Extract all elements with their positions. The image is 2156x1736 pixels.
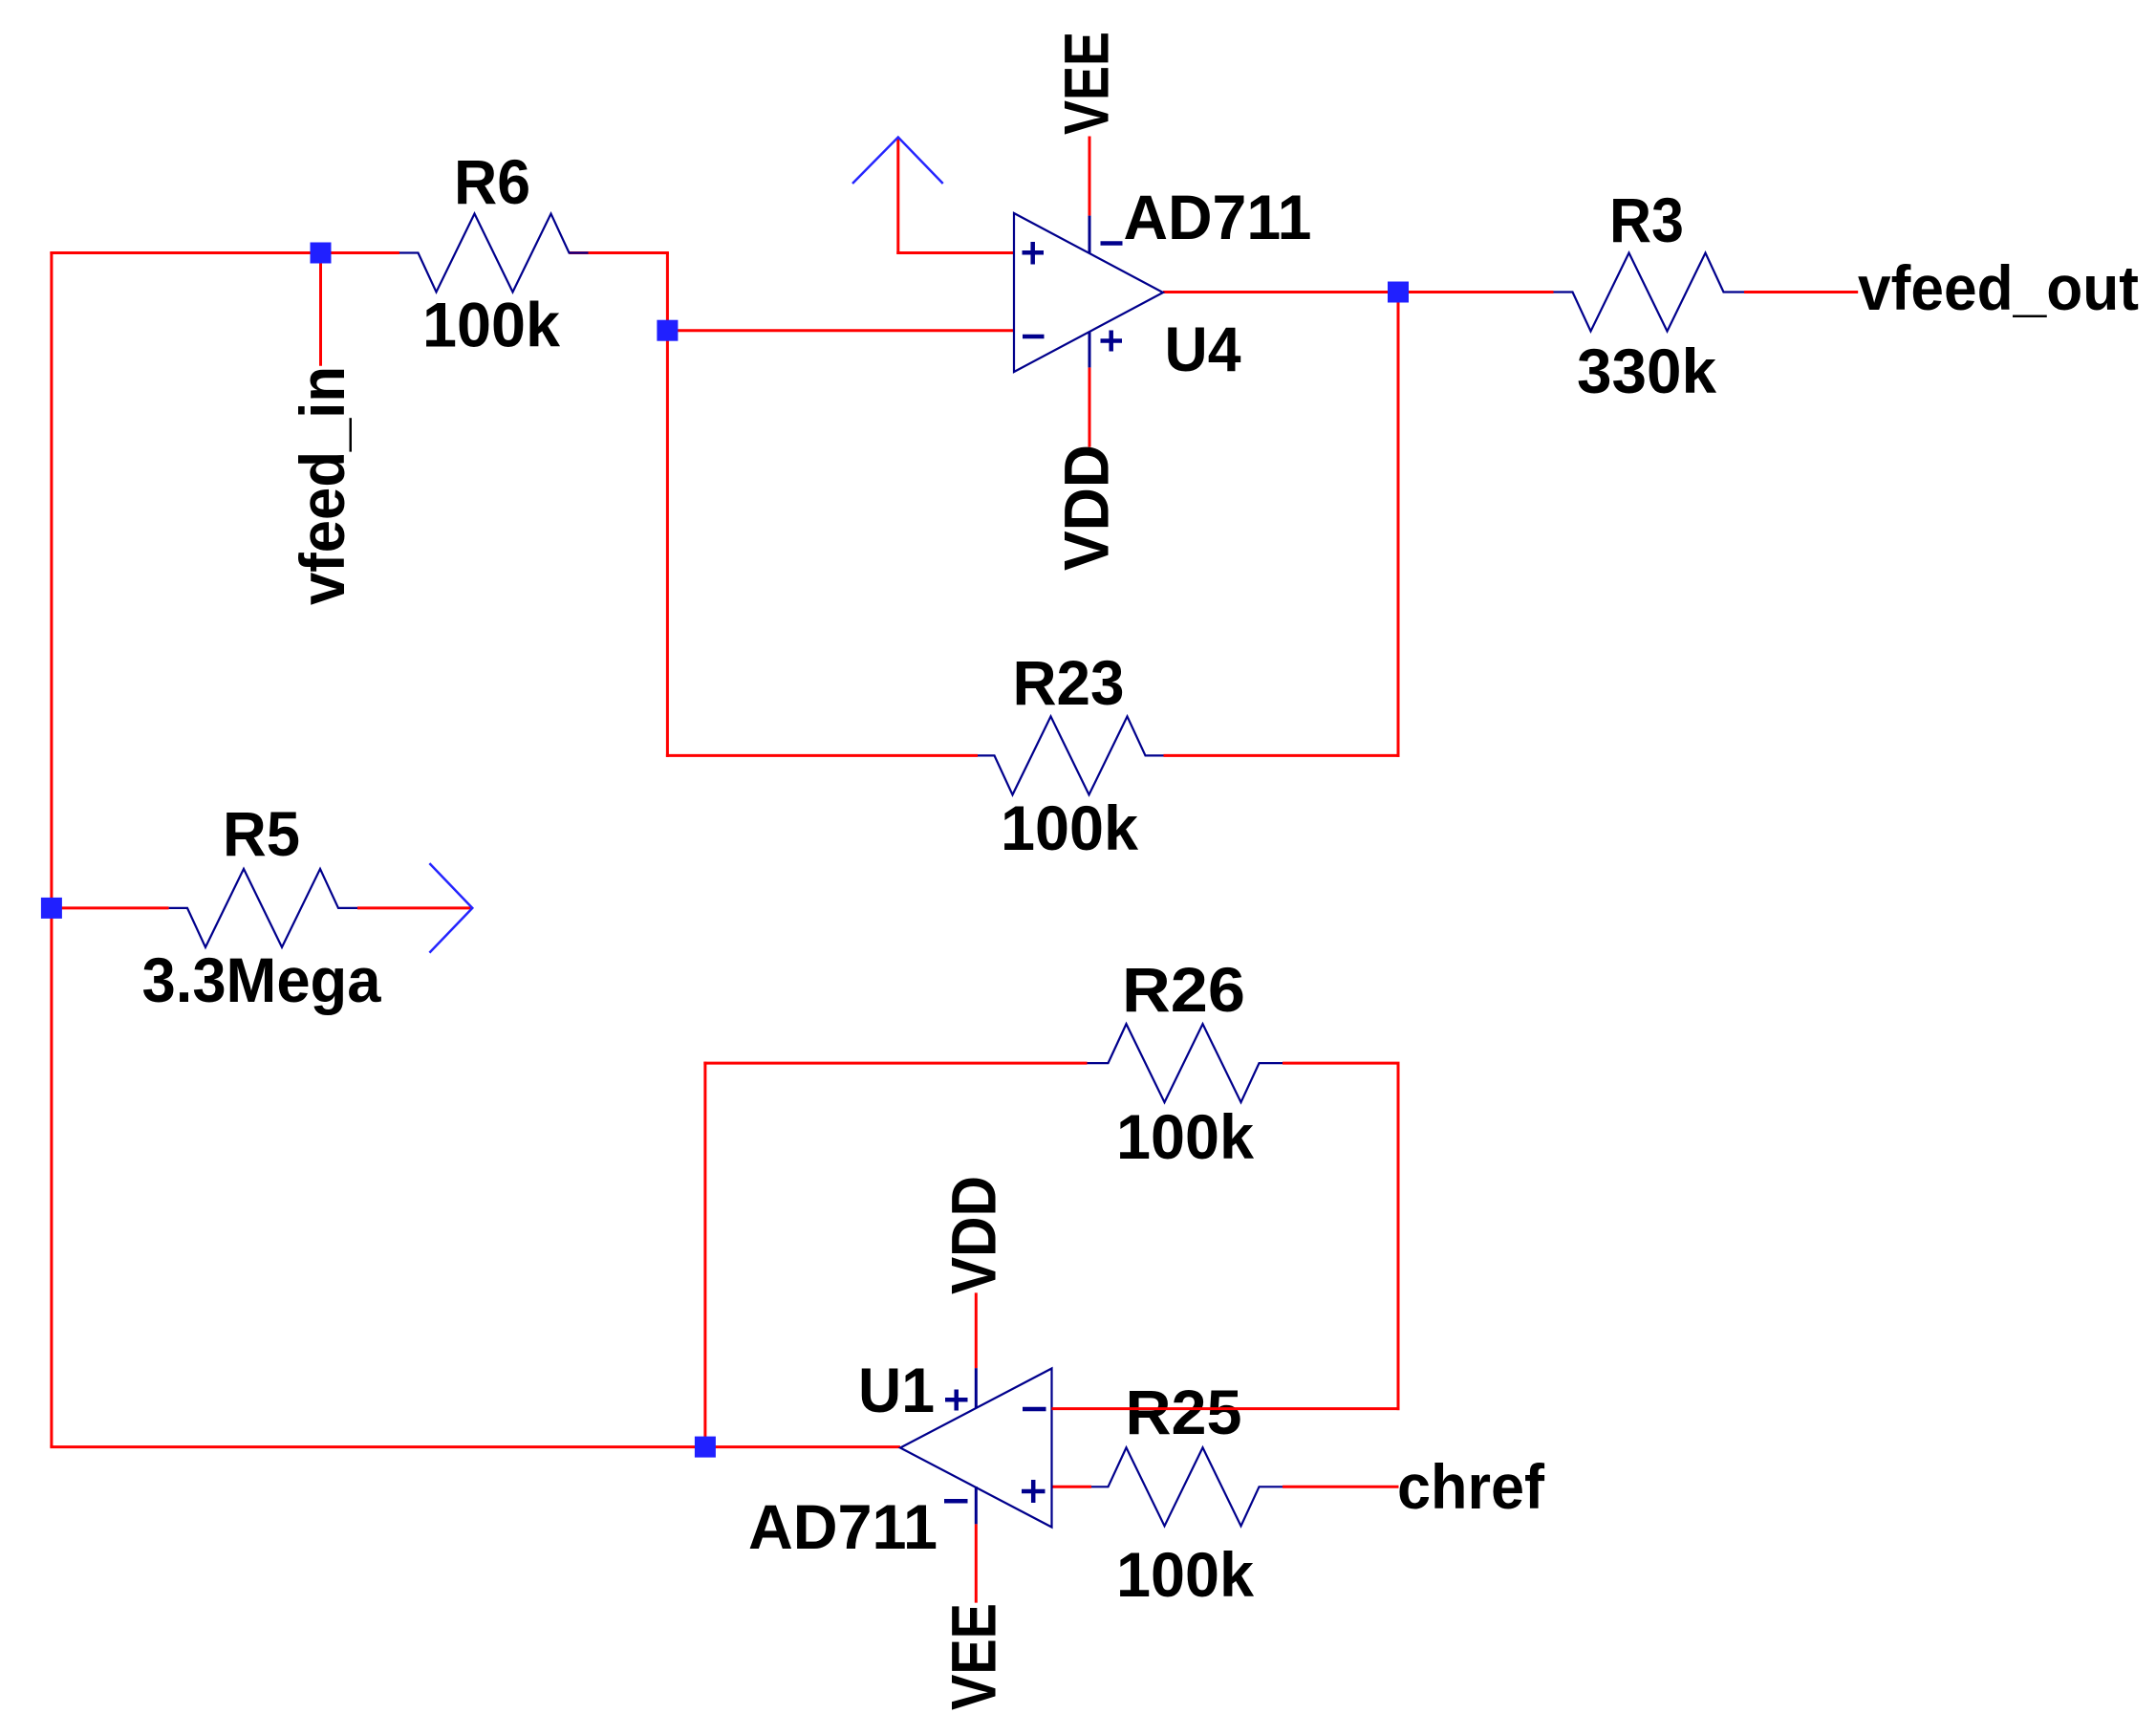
open-net arrow near U4 input: [852, 138, 943, 184]
op-amp U1: [900, 1368, 1052, 1527]
resistor R5: [169, 869, 357, 947]
wire feedback vertical down: [1397, 1063, 1400, 1410]
resistor R6: [399, 214, 589, 293]
svg-text:100k: 100k: [1116, 1539, 1254, 1610]
svg-text:100k: 100k: [422, 290, 560, 360]
svg-text:VEE: VEE: [1051, 32, 1122, 135]
op-amp U1 noninverting input plus: [1022, 1489, 1046, 1494]
junction node at vfeed_in: [311, 243, 332, 264]
wire R5 left: [52, 906, 169, 909]
op-amp U4 top power pin: [1089, 216, 1091, 253]
wire arrow stub down: [896, 138, 899, 255]
svg-text:100k: 100k: [1001, 792, 1138, 863]
op-amp U4 bottom power pin: [1089, 332, 1091, 367]
wire R3 to vfeed_out: [1744, 291, 1858, 293]
svg-text:AD711: AD711: [1124, 182, 1312, 252]
svg-text:VDD: VDD: [1051, 445, 1122, 571]
svg-text:R6: R6: [454, 146, 530, 217]
op-amp U4: [1014, 213, 1163, 372]
op-amp U1 bottom power pin: [975, 1486, 978, 1524]
svg-text:3.3Mega: 3.3Mega: [142, 944, 382, 1015]
wire U1 noninverting input to R25: [1052, 1486, 1092, 1488]
wire U4 output: [1163, 291, 1398, 293]
svg-text:vfeed_out: vfeed_out: [1858, 252, 2139, 323]
svg-text:chref: chref: [1397, 1451, 1545, 1522]
junction node at U1 input row: [695, 1437, 716, 1458]
svg-text:R26: R26: [1122, 954, 1245, 1025]
wire output node to R3: [1398, 291, 1554, 293]
wire to R26 left: [703, 1062, 1087, 1065]
op-amp U1 VDD pin plus: [945, 1398, 968, 1402]
svg-text:AD711: AD711: [748, 1491, 938, 1562]
wire to U1 inverting input: [1052, 1407, 1400, 1410]
op-amp U4 VEE pin minus: [1101, 241, 1123, 246]
wire R5 right to arrow: [357, 906, 472, 909]
op-amp U4 noninverting input plus: [1023, 250, 1045, 255]
junction node at U4 output: [1388, 282, 1409, 303]
wire R23 corner up to output node: [1397, 293, 1400, 757]
wire R26 right to corner: [1283, 1062, 1400, 1065]
resistor R25: [1091, 1447, 1283, 1526]
wire R25 to chref: [1283, 1486, 1399, 1488]
open-net arrow at R5: [429, 863, 472, 953]
wire node to U1 tip: [705, 1445, 900, 1448]
svg-text:VDD: VDD: [938, 1176, 1009, 1294]
junction node at U4 inverting input: [657, 320, 678, 341]
op-amp U4 inverting input minus: [1023, 335, 1045, 339]
op-amp U1 VEE pin minus: [944, 1499, 968, 1504]
svg-text:U1: U1: [858, 1355, 935, 1425]
wire VDD stub U4: [1089, 367, 1091, 446]
svg-text:VEE: VEE: [938, 1603, 1009, 1710]
resistor R26: [1088, 1024, 1283, 1102]
wire VEE stub U4: [1089, 137, 1091, 216]
wire top-left horizontal: [50, 251, 320, 254]
wire node down to R23 row: [666, 331, 669, 757]
wire node to U4 inverting input: [667, 329, 1013, 332]
svg-text:100k: 100k: [1116, 1101, 1254, 1172]
wire R6 to corner: [570, 251, 669, 254]
svg-text:R5: R5: [223, 798, 300, 869]
wire R23 right to corner: [1164, 754, 1400, 757]
svg-text:vfeed_in: vfeed_in: [287, 366, 357, 605]
op-amp U1 inverting input minus: [1023, 1407, 1046, 1412]
op-amp U1 top power pin: [975, 1368, 978, 1408]
wire junction to R6: [321, 251, 400, 254]
wire vfeed_in stub: [319, 253, 322, 366]
wire corner down to node: [666, 253, 669, 331]
svg-text:R23: R23: [1013, 647, 1125, 718]
wire VEE stub U1: [975, 1524, 978, 1602]
svg-text:U4: U4: [1165, 314, 1241, 384]
junction node at R5: [41, 898, 62, 919]
op-amp U4 VDD pin plus: [1101, 338, 1123, 343]
svg-text:R25: R25: [1126, 1377, 1242, 1447]
wire left vertical: [50, 251, 53, 1447]
resistor R23: [978, 716, 1164, 794]
wire to R23 left: [666, 754, 978, 757]
svg-text:330k: 330k: [1577, 336, 1716, 406]
wire bottom horizontal: [50, 1445, 705, 1448]
wire to U4 noninverting input: [896, 251, 1013, 254]
wire node up to R26 row: [703, 1062, 706, 1447]
resistor R3: [1554, 253, 1745, 332]
svg-text:R3: R3: [1609, 184, 1684, 255]
wire VDD stub U1: [975, 1292, 978, 1368]
